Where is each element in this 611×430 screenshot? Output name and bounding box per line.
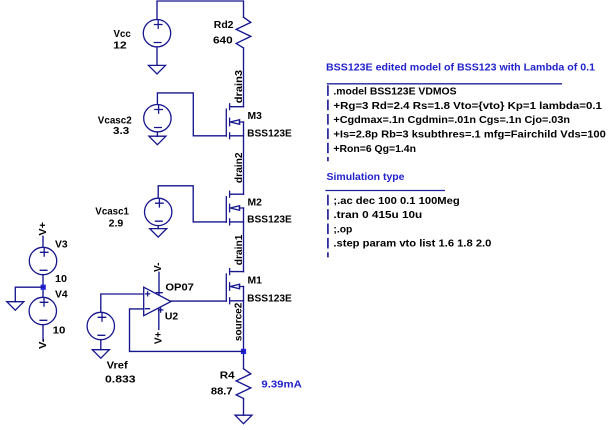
op-amp V- power pin wire — [158, 272, 160, 295]
junction node square at source2/R4/feedback — [241, 349, 246, 354]
wire Vcasc1 to ground — [157, 226, 159, 229]
wire node to ground left — [15, 287, 43, 302]
wire inverting input feedback — [130, 309, 244, 352]
svg-text:V-: V- — [38, 339, 49, 350]
current annotation 9.39mA — [261, 380, 301, 391]
svg-text:V-: V- — [153, 263, 164, 273]
value BSS123E of M3 — [247, 129, 292, 140]
wire V4 down — [42, 325, 44, 341]
node label source2 — [233, 302, 244, 341]
value 0.833 — [105, 374, 136, 385]
voltage source Vcasc1 — [145, 198, 172, 225]
svg-text:Vcasc1: Vcasc1 — [95, 207, 129, 218]
wire Vcasc2 to ground — [156, 132, 158, 136]
wire node drain1 — [243, 208, 245, 272]
value 10 of V4 — [53, 325, 66, 336]
pin label V+ at op-amp bottom — [154, 331, 165, 344]
svg-text:.tran 0 415u 10u: .tran 0 415u 10u — [333, 210, 422, 221]
pin label V- at op-amp top — [153, 263, 164, 273]
directive line .tran — [333, 210, 422, 221]
wire node source2 — [243, 287, 245, 369]
value 3.3 — [113, 126, 130, 137]
transistor M3 — [226, 103, 243, 139]
svg-text:M3: M3 — [248, 111, 263, 122]
directive line +Rg — [333, 101, 602, 112]
value 640 — [213, 36, 233, 47]
svg-text:M1: M1 — [248, 275, 263, 286]
resistor Rd2 — [236, 17, 251, 48]
voltage source Vcc — [143, 20, 170, 47]
svg-text:BSS123E edited model of BSS123: BSS123E edited model of BSS123 with Lamb… — [326, 62, 595, 73]
node label drain3 — [234, 70, 245, 104]
label R4 — [220, 370, 235, 381]
label V4 — [55, 290, 68, 301]
net flag V+ above V3 — [38, 222, 49, 236]
directive dashes simulation block — [327, 195, 329, 258]
label Rd2 — [214, 20, 234, 31]
label OP07 — [165, 283, 194, 294]
wire noninverting input to Vref — [101, 294, 144, 312]
ground below Vcasc2 — [149, 136, 166, 145]
value 10 of V3 — [55, 274, 67, 285]
svg-text:V+: V+ — [38, 222, 49, 236]
comment heading model — [326, 62, 595, 73]
directive line +Ron — [333, 144, 416, 155]
op-amp power markers — [156, 293, 164, 313]
svg-text:drain3: drain3 — [234, 70, 245, 104]
junction node square between V3 and V4 — [41, 285, 46, 290]
rule under heading Simulation type — [325, 190, 445, 192]
svg-text:88.7: 88.7 — [211, 386, 233, 397]
label Vcasc1 — [95, 207, 129, 218]
directive line .ac — [333, 196, 459, 207]
svg-text:.model BSS123E VDMOS: .model BSS123E VDMOS — [333, 86, 457, 97]
voltage source V4 — [29, 297, 56, 324]
svg-text:Rd2: Rd2 — [214, 20, 234, 31]
net flag V- below V4 — [38, 339, 49, 350]
wire V+ to V3 — [42, 236, 44, 247]
label Vref — [107, 361, 129, 372]
ground below Vcc — [149, 65, 166, 74]
svg-text:BSS123E: BSS123E — [247, 294, 292, 305]
svg-text:2.9: 2.9 — [109, 219, 124, 230]
wire Vcasc1 to M2 gate — [158, 186, 226, 222]
op-amp input markers — [145, 291, 150, 308]
svg-text:640: 640 — [213, 36, 233, 47]
svg-text:+Ron=6 Qg=1.4n: +Ron=6 Qg=1.4n — [333, 144, 416, 155]
voltage source V3 — [29, 247, 56, 274]
svg-text:drain2: drain2 — [234, 152, 245, 183]
node label drain1 — [234, 234, 245, 265]
svg-text:OP07: OP07 — [165, 283, 194, 294]
svg-text:9.39mA: 9.39mA — [261, 380, 301, 391]
wire R4 to ground — [243, 399, 245, 416]
comment heading Simulation type — [327, 172, 405, 183]
value 88.7 — [211, 386, 233, 397]
svg-text:M2: M2 — [248, 197, 263, 208]
label M2 — [248, 197, 263, 208]
svg-text:U2: U2 — [165, 311, 179, 322]
wire node drain3 — [243, 48, 245, 107]
svg-text:Vcc: Vcc — [114, 29, 132, 40]
svg-text:V4: V4 — [55, 290, 68, 301]
value 2.9 — [109, 219, 124, 230]
label Vcc — [114, 29, 132, 40]
value BSS123E of M1 — [247, 294, 292, 305]
op-amp V+ power pin wire — [158, 308, 160, 329]
svg-text:R4: R4 — [220, 370, 235, 381]
voltage source Vref — [87, 312, 114, 339]
wire Vcc to ground — [156, 47, 158, 65]
svg-text:Vref: Vref — [107, 361, 129, 372]
svg-text:+Cgdmax=.1n Cgdmin=.01n Cgs=.1: +Cgdmax=.1n Cgdmin=.01n Cgs=.1n Cjo=.03n — [333, 115, 570, 126]
value BSS123E of M2 — [247, 215, 292, 226]
wire Vref to ground — [100, 340, 102, 350]
wire top rail Vcc to Rd2 — [157, 1, 244, 20]
transistor M2 — [226, 191, 243, 226]
voltage source Vcasc2 — [144, 105, 171, 132]
svg-text:V+: V+ — [154, 331, 165, 344]
directive line +Cgdmax — [333, 115, 570, 126]
label V3 — [55, 240, 68, 251]
label M3 — [248, 111, 263, 122]
label M1 — [248, 275, 263, 286]
directive line .op — [333, 224, 352, 235]
svg-text:BSS123E: BSS123E — [247, 129, 292, 140]
wire Vcasc2 to M3 gate — [157, 93, 226, 136]
svg-text:0.833: 0.833 — [105, 374, 136, 385]
svg-text:drain1: drain1 — [234, 234, 245, 265]
ground below R4 — [235, 415, 252, 424]
transistor M1 — [226, 268, 243, 304]
svg-text:;.ac dec 100 0.1 100Meg: ;.ac dec 100 0.1 100Meg — [333, 196, 459, 207]
svg-text:V3: V3 — [55, 240, 68, 251]
rule under heading model — [327, 83, 562, 85]
directive line +Is — [333, 129, 606, 140]
ground below Vref — [92, 350, 109, 359]
svg-text:+Rg=3 Rd=2.4 Rs=1.8 Vto={vto}: +Rg=3 Rd=2.4 Rs=1.8 Vto={vto} Kp=1 lambd… — [333, 101, 602, 112]
svg-text:12: 12 — [113, 41, 127, 52]
label U2 — [165, 311, 179, 322]
value 12 — [113, 41, 127, 52]
directive line .model — [333, 86, 457, 97]
svg-text:Simulation type: Simulation type — [327, 172, 405, 183]
svg-text:BSS123E: BSS123E — [247, 215, 292, 226]
wire node drain2 — [243, 122, 245, 194]
wire op-amp output to M1 gate — [171, 300, 226, 302]
label Vcasc2 — [98, 115, 132, 126]
svg-text:;.op: ;.op — [333, 224, 352, 235]
ground below Vcasc1 — [150, 229, 167, 238]
svg-text:10: 10 — [55, 274, 67, 285]
svg-text:10: 10 — [53, 325, 66, 336]
resistor R4 — [236, 369, 251, 399]
wire V3 to V4 — [42, 275, 44, 298]
node label drain2 — [234, 152, 245, 183]
svg-text:.step param vto list 1.6 1.8 2: .step param vto list 1.6 1.8 2.0 — [333, 239, 491, 250]
ground at V3/V4 midpoint — [7, 302, 24, 311]
svg-text:+Is=2.8p Rb=3 ksubthres=.1 mfg: +Is=2.8p Rb=3 ksubthres=.1 mfg=Fairchild… — [333, 129, 606, 140]
svg-text:Vcasc2: Vcasc2 — [98, 115, 132, 126]
directive line .step — [333, 239, 491, 250]
op-amp U1 triangle — [144, 287, 171, 316]
svg-text:source2: source2 — [233, 302, 244, 341]
directive dashes model block — [327, 85, 329, 161]
svg-text:3.3: 3.3 — [113, 126, 130, 137]
